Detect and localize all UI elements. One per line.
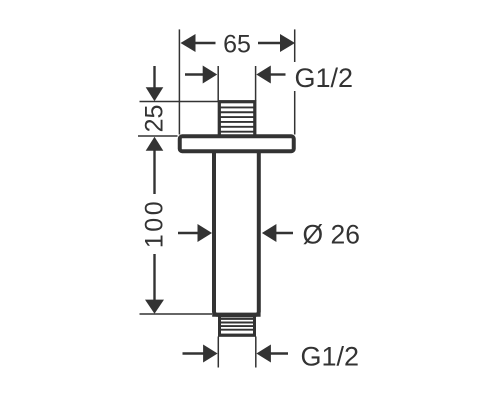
svg-text:25: 25 [140, 105, 168, 133]
svg-text:G1/2: G1/2 [301, 341, 360, 371]
svg-text:Ø 26: Ø 26 [303, 220, 360, 250]
svg-text:G1/2: G1/2 [295, 63, 354, 93]
svg-text:65: 65 [223, 31, 251, 59]
svg-text:100: 100 [140, 199, 168, 248]
